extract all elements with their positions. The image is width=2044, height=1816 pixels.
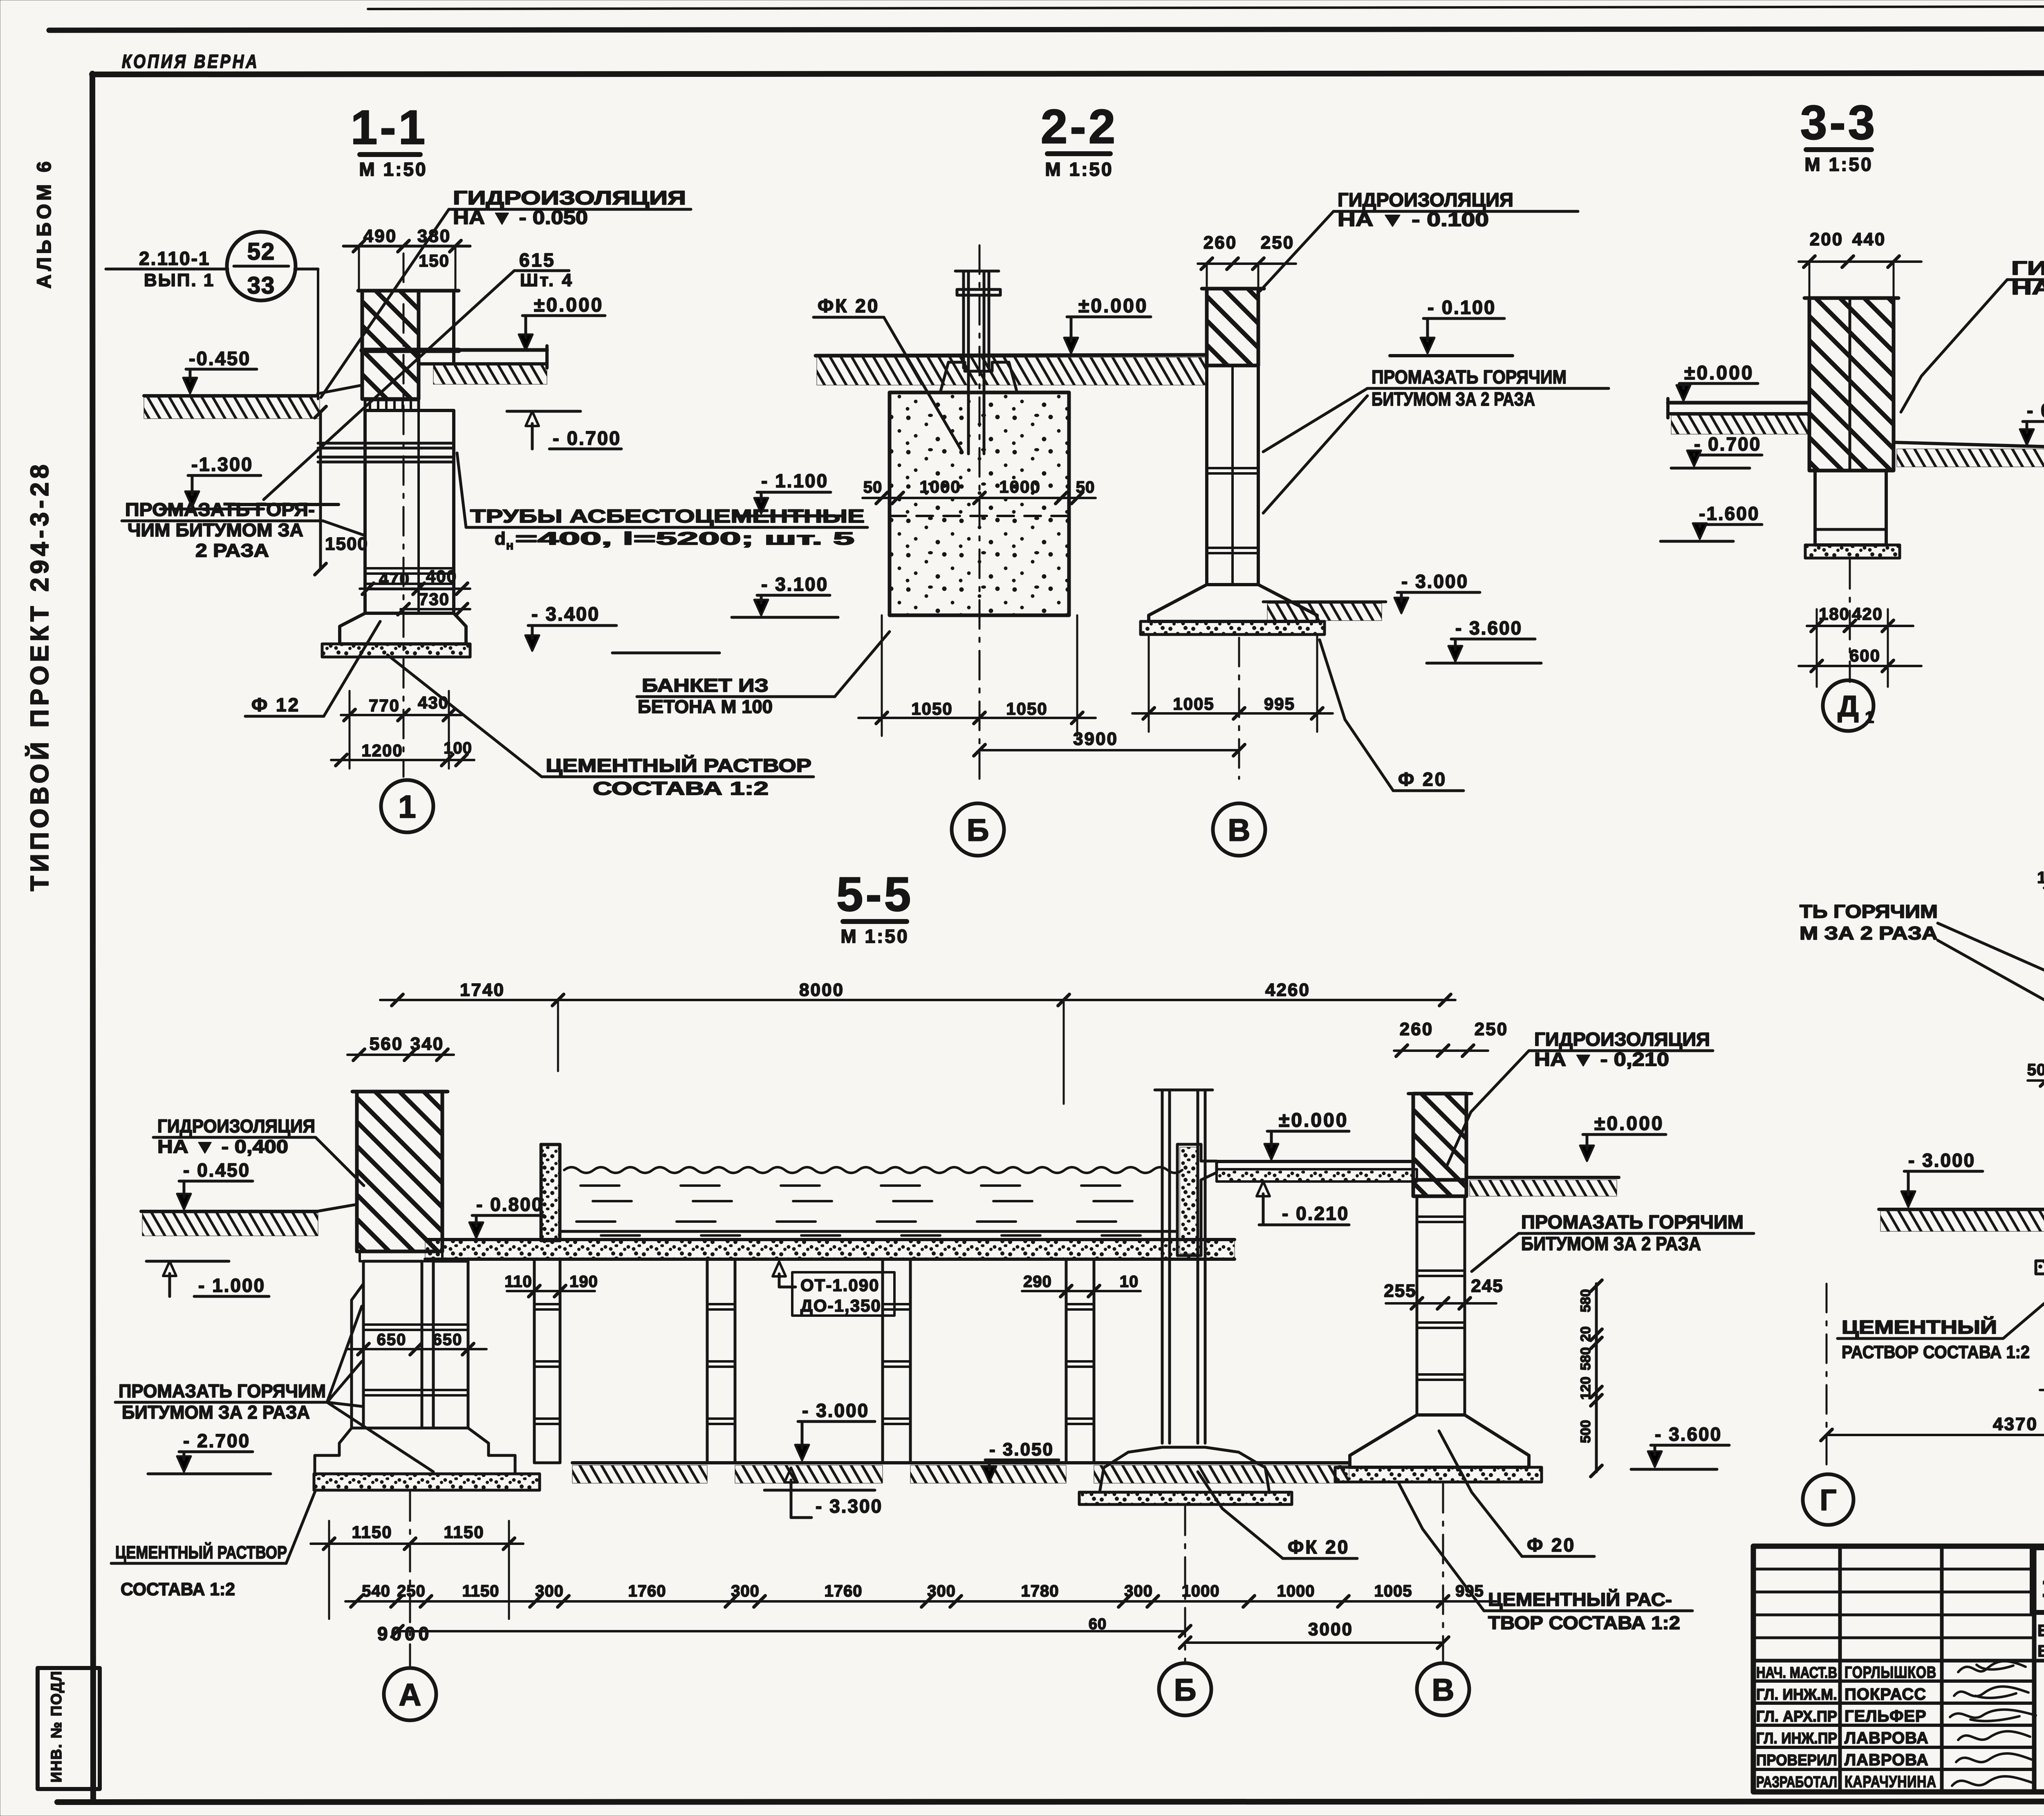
svg-text:ЦЕМЕНТНЫЙ: ЦЕМЕНТНЫЙ [1842, 1316, 1997, 1338]
5-5 water dashes [580, 1184, 1163, 1187]
svg-text:Б: Б [967, 813, 989, 847]
svg-text:3900: 3900 [1073, 729, 1118, 749]
svg-text:ПРОМАЗАТЬ ГОРЯ-: ПРОМАЗАТЬ ГОРЯ- [125, 499, 315, 520]
svg-text:ТВОР СОСТАВА 1:2: ТВОР СОСТАВА 1:2 [1488, 1612, 1680, 1633]
svg-text:- 3.050: - 3.050 [989, 1439, 1054, 1460]
svg-text:- 0.210: - 0.210 [1282, 1203, 1349, 1224]
svg-text:Шт. 4: Шт. 4 [520, 270, 574, 290]
5-5 pool floor slab [425, 1240, 1235, 1259]
3-3 footing slab [1805, 545, 1900, 558]
svg-text:ЛАВРОВА: ЛАВРОВА [1845, 1729, 1929, 1747]
svg-text:1000: 1000 [919, 477, 961, 496]
page frame: bottom border [57, 1801, 2044, 1802]
svg-text:20: 20 [1578, 1326, 1594, 1342]
2-2 footing trapezoid under wall column [1149, 585, 1317, 621]
svg-text:540: 540 [362, 1582, 390, 1600]
svg-text:ГЛ. ИНЖ.М.: ГЛ. ИНЖ.М. [1756, 1686, 1837, 1704]
2-2 dim 50/1000/1000/50 over block [863, 497, 1096, 499]
svg-text:1050: 1050 [911, 699, 953, 718]
svg-text:- 3.400: - 3.400 [531, 603, 600, 625]
svg-text:Ф 12: Ф 12 [251, 694, 300, 715]
svg-text:1500: 1500 [325, 534, 368, 554]
svg-text:245: 245 [1471, 1276, 1503, 1296]
svg-text:ДО-1,350: ДО-1,350 [800, 1296, 881, 1315]
svg-text:ТЬ ГОРЯЧИМ: ТЬ ГОРЯЧИМ [1800, 901, 1938, 922]
2-2 column base flange [957, 289, 1000, 295]
title block: signatures [1958, 1661, 2026, 1672]
5-5 left ground line [141, 1210, 317, 1213]
6-6 base slab [2036, 1261, 2044, 1274]
1-1 column top edge [358, 289, 459, 293]
svg-text:1740: 1740 [460, 980, 505, 1000]
svg-text:2-2: 2-2 [1041, 100, 1118, 154]
svg-text:770: 770 [369, 696, 400, 715]
svg-text:М ЗА 2 РАЗА: М ЗА 2 РАЗА [1800, 923, 1938, 944]
1-1 axis circle 1 [381, 780, 433, 832]
svg-text:БИТУМОМ ЗА 2 РАЗА: БИТУМОМ ЗА 2 РАЗА [1372, 388, 1535, 410]
svg-text:3000: 3000 [1308, 1619, 1353, 1639]
svg-text:490: 490 [363, 226, 397, 246]
svg-text:300: 300 [927, 1582, 956, 1600]
svg-text:АЛЬБОМ 6: АЛЬБОМ 6 [34, 158, 55, 289]
svg-text:1: 1 [398, 789, 416, 825]
1-1 left ground line at -0.450 [144, 394, 318, 397]
5-5 dim 650/650 [347, 1348, 486, 1350]
1-1 brick joints [365, 567, 454, 569]
1-1 foundation column body [365, 410, 454, 613]
svg-text:Ф 20: Ф 20 [1398, 769, 1447, 790]
svg-text:9000: 9000 [377, 1623, 432, 1644]
3-3 right ground at -0.450 [1894, 442, 2044, 447]
svg-text:М 1:50: М 1:50 [840, 926, 909, 947]
3-3 top dim 200/440 [1799, 260, 1921, 263]
svg-text:- 3.000: - 3.000 [802, 1400, 869, 1421]
svg-text:730: 730 [419, 590, 450, 609]
svg-text:260: 260 [1204, 233, 1237, 253]
svg-text:±0.000: ±0.000 [1078, 295, 1148, 317]
2-2 right wall dim 260/250 [1198, 262, 1296, 265]
svg-text:300: 300 [731, 1582, 760, 1600]
svg-text:300: 300 [1124, 1582, 1153, 1600]
svg-text:- 0.450: - 0.450 [183, 1159, 250, 1181]
svg-text:М 1:50: М 1:50 [1804, 154, 1873, 175]
svg-text:8000: 8000 [799, 980, 844, 1000]
svg-text:ГИДРОИЗОЛЯЦИЯ: ГИДРОИЗОЛЯЦИЯ [1338, 189, 1513, 211]
2-2 anchor pedestal [940, 362, 1017, 392]
svg-text:ПРОМАЗАТЬ ГОРЯЧИМ: ПРОМАЗАТЬ ГОРЯЧИМ [1521, 1211, 1744, 1233]
svg-text:400: 400 [426, 567, 457, 586]
2-2 concrete block (banket) [890, 392, 1069, 615]
5-5 steel column at axis B [1161, 1090, 1164, 1443]
2-2 axis V line and circle [1238, 638, 1240, 779]
svg-text:- 3.600: - 3.600 [1455, 617, 1522, 639]
svg-text:-0.450: -0.450 [189, 348, 251, 369]
bottom-left inventory stamp box [38, 1668, 100, 1789]
svg-text:- 2.700: - 2.700 [183, 1430, 250, 1451]
5-5 V footing slab [1335, 1467, 1542, 1482]
5-5 pool right wall with gutter [1177, 1144, 1217, 1256]
svg-text:995: 995 [1264, 694, 1295, 713]
svg-text:580: 580 [1578, 1347, 1594, 1370]
2-2 axis B line and circle [979, 245, 981, 779]
1-1 ground hatch under floor [433, 365, 547, 384]
svg-text:- 0.450: - 0.450 [2027, 400, 2044, 421]
svg-text:560: 560 [370, 1034, 403, 1054]
svg-text:ЦЕМЕНТНЫЙ РАС-: ЦЕМЕНТНЫЙ РАС- [1488, 1589, 1672, 1610]
5-5 A column footing [315, 1428, 515, 1474]
title block: staff rows [1753, 1659, 2034, 1662]
svg-text:ГОРЛЫШКОВ: ГОРЛЫШКОВ [1845, 1664, 1936, 1681]
svg-text:ПРОМАЗАТЬ ГОРЯЧИМ: ПРОМАЗАТЬ ГОРЯЧИМ [1372, 366, 1567, 388]
svg-text:=400, l=5200; шт. 5: =400, l=5200; шт. 5 [515, 529, 854, 549]
svg-text:1050: 1050 [1006, 699, 1047, 718]
1-1 leader 615 [264, 271, 514, 500]
svg-text:1760: 1760 [825, 1582, 863, 1600]
svg-text:d: d [495, 529, 507, 549]
svg-text:1: 1 [1865, 708, 1874, 726]
svg-text:1000: 1000 [999, 477, 1040, 496]
svg-text:М 1:50: М 1:50 [359, 159, 427, 180]
svg-text:4260: 4260 [1265, 980, 1310, 1000]
svg-text:ГИДРОИЗОЛЯЦИЯ: ГИДРОИЗОЛЯЦИЯ [2011, 257, 2044, 279]
1-1 floor slab right [419, 348, 547, 352]
5-5 bottom dim 3000 [1185, 1641, 1443, 1644]
svg-text:120: 120 [1578, 1377, 1594, 1400]
svg-text:ВЫП. 1: ВЫП. 1 [144, 270, 215, 290]
svg-text:ФК 20: ФК 20 [818, 295, 879, 316]
2-2 dim 1005/995 under footing [1132, 712, 1333, 715]
5-5 foundation columns under pool [534, 1259, 560, 1463]
svg-text:±0.000: ±0.000 [1279, 1110, 1348, 1131]
svg-text:РАСТВОР СОСТАВА 1:2: РАСТВОР СОСТАВА 1:2 [1842, 1342, 2030, 1362]
svg-text:-1.300: -1.300 [191, 453, 253, 475]
svg-text:НАЧ. МАСТ.В: НАЧ. МАСТ.В [1756, 1664, 1837, 1681]
5-5 bottom dim 1150/1150 [311, 1542, 523, 1545]
title block outer box [1753, 1546, 2044, 1792]
svg-text:В: В [1228, 813, 1251, 847]
svg-text:650: 650 [433, 1331, 463, 1349]
page frame: inner border top [92, 73, 2044, 74]
5-5 A footing slab [314, 1474, 540, 1490]
svg-text:1150: 1150 [444, 1522, 484, 1542]
1-1 leader from gidroizolyatsiya [321, 209, 449, 397]
svg-text:5-5: 5-5 [836, 868, 914, 921]
svg-text:ВАННАМИ: 50х21 м С МЕСТАМИ ДЛЯ: ВАННАМИ: 50х21 м С МЕСТАМИ ДЛЯ ЗРИТЕЛЕЙ … [2037, 1641, 2044, 1660]
5-5 wall dim 560/340 [347, 1054, 454, 1056]
5-5 bottom dim 9000 [397, 1630, 1185, 1632]
5-5 hydro band under wall [360, 1251, 442, 1261]
5-5 walkway slab right [1217, 1160, 1417, 1163]
svg-text:580: 580 [1578, 1289, 1594, 1312]
svg-text:ГЕЛЬФЕР: ГЕЛЬФЕР [1845, 1707, 1927, 1725]
svg-text:ПРОМАЗАТЬ ГОРЯЧИМ: ПРОМАЗАТЬ ГОРЯЧИМ [119, 1381, 326, 1401]
1-1 footing base slab [322, 644, 470, 657]
3-3 hatched wall column [1809, 298, 1894, 471]
1-1 bottom dims 770/430 [341, 714, 462, 716]
svg-text:ФК 20: ФК 20 [1288, 1536, 1349, 1558]
title block: left grid verticals [1838, 1546, 1842, 1792]
svg-text:НА ▼ - 0,400: НА ▼ - 0,400 [157, 1136, 288, 1157]
svg-text:БИТУМОМ ЗА 2 РАЗА: БИТУМОМ ЗА 2 РАЗА [122, 1402, 310, 1423]
2-2 right wall hatched column [1207, 289, 1258, 365]
svg-text:1200: 1200 [361, 741, 403, 760]
svg-text:2 РАЗА: 2 РАЗА [195, 540, 269, 561]
svg-text:1005: 1005 [1173, 694, 1214, 713]
svg-text:430: 430 [418, 693, 449, 712]
svg-text:СОСТАВА 1:2: СОСТАВА 1:2 [593, 778, 769, 799]
svg-text:ТИПОВОЙ ПРОЕКТ 294-3-28: ТИПОВОЙ ПРОЕКТ 294-3-28 [25, 461, 54, 891]
2-2 ground line [816, 355, 1207, 356]
3-3 dims 180/420 [1807, 625, 1913, 627]
svg-text:БИТУМОМ ЗА 2 РАЗА: БИТУМОМ ЗА 2 РАЗА [1521, 1233, 1701, 1254]
5-5 label OT-1.090 DO-1.350 [792, 1272, 894, 1316]
svg-text:650: 650 [377, 1331, 407, 1349]
svg-text:180: 180 [1819, 604, 1850, 623]
6-6 dims 1100/1100 [2040, 1389, 2044, 1391]
svg-text:33: 33 [247, 272, 276, 299]
svg-text:БАНКЕТ ИЗ: БАНКЕТ ИЗ [642, 675, 769, 696]
svg-text:50: 50 [863, 478, 883, 496]
svg-text:300: 300 [535, 1582, 564, 1600]
page frame: inner border left [92, 74, 93, 1802]
svg-text:4370: 4370 [1993, 1414, 2038, 1434]
svg-text:470: 470 [379, 569, 410, 588]
1-1 brick wall column (hatched) [362, 291, 419, 399]
svg-text:СОСТАВА 1:2: СОСТАВА 1:2 [121, 1579, 235, 1599]
svg-text:ЛАВРОВА: ЛАВРОВА [1845, 1751, 1929, 1769]
svg-text:1150: 1150 [352, 1522, 392, 1542]
svg-text:- 0.700: - 0.700 [553, 427, 621, 449]
5-5 top dim chain 1740/8000/4260 [380, 999, 1455, 1001]
svg-text:ГЛ. ИНЖ.ПР: ГЛ. ИНЖ.ПР [1756, 1730, 1837, 1747]
svg-text:1780: 1780 [1021, 1582, 1059, 1600]
6-6 axis G and circle [1826, 1284, 1828, 1475]
svg-text:52: 52 [247, 238, 276, 265]
svg-text:РАЗРАБОТАЛ: РАЗРАБОТАЛ [1756, 1774, 1837, 1791]
5-5 left hatched wall [357, 1092, 442, 1251]
svg-text:420: 420 [1852, 604, 1883, 623]
svg-text:Ф 20: Ф 20 [1527, 1534, 1576, 1556]
svg-text:ГИДРОИЗОЛЯЦИЯ: ГИДРОИЗОЛЯЦИЯ [1534, 1029, 1710, 1050]
1-1 top dimension 490/380/150 [343, 245, 470, 248]
svg-text:1979: 1979 [2042, 1572, 2044, 1603]
svg-text:ЦЕМЕНТНЫЙ РАСТВОР: ЦЕМЕНТНЫЙ РАСТВОР [546, 755, 811, 776]
6-6 dim 50/1050/1050/50 [2028, 1079, 2044, 1082]
1-1 column axis [403, 253, 405, 777]
5-5 V footing trapezoid [1350, 1415, 1529, 1467]
svg-text:- 0.800: - 0.800 [476, 1194, 543, 1215]
svg-text:615: 615 [519, 249, 556, 271]
svg-text:1760: 1760 [628, 1582, 666, 1600]
svg-text:В: В [1432, 1673, 1455, 1707]
svg-text:Г: Г [1820, 1484, 1837, 1517]
1-1 inner dims 470/400 and 730 [360, 587, 470, 590]
svg-text:Б: Б [1174, 1673, 1197, 1707]
svg-text:2.110-1: 2.110-1 [139, 248, 210, 269]
2-2 footing slab [1141, 621, 1325, 634]
5-5 water surface wavy line [564, 1167, 1182, 1173]
svg-text:- 0.700: - 0.700 [1694, 433, 1761, 455]
svg-text:255: 255 [1384, 1281, 1416, 1301]
svg-text:250: 250 [397, 1582, 426, 1600]
svg-text:±0.000: ±0.000 [1594, 1113, 1664, 1134]
svg-text:250: 250 [1261, 233, 1294, 253]
svg-text:340: 340 [410, 1034, 444, 1054]
svg-text:- 3.000: - 3.000 [1908, 1150, 1975, 1171]
2-2 steel column shaft [962, 271, 965, 368]
2-2 podgotovka dashed line in block [890, 515, 1069, 517]
5-5 ground right of V column [1466, 1176, 1619, 1179]
1-1 duct line left of column [230, 503, 338, 506]
svg-text:50: 50 [1076, 478, 1095, 496]
1-1 vertical dim 1500 [319, 412, 322, 569]
5-5 under-pool ground line [572, 1461, 1349, 1464]
svg-text:ПОКРАСС: ПОКРАСС [1845, 1686, 1926, 1704]
1-1 bottom dims 1200/100 [331, 759, 474, 761]
2-2 foundation column under wall [1207, 365, 1258, 585]
svg-text:1150: 1150 [462, 1582, 500, 1600]
svg-text:- 1.000: - 1.000 [198, 1275, 265, 1296]
1-1 floor level thick line across column [362, 348, 459, 353]
3-3 axis and circle D1 [1849, 560, 1851, 682]
svg-text:А: А [399, 1677, 421, 1712]
svg-text:1000: 1000 [1182, 1582, 1220, 1600]
1-1 pipe sleeves through foundation [318, 442, 454, 445]
svg-text:190: 190 [569, 1273, 598, 1291]
svg-text:ИНВ. № ПОДЛ.: ИНВ. № ПОДЛ. [48, 1666, 65, 1782]
svg-text:БАССЕЙН/В ДЕРЕВОКЛЕЕНЫХ КОНСТР: БАССЕЙН/В ДЕРЕВОКЛЕЕНЫХ КОНСТРУКЦИЯХ/С К… [2037, 1621, 2044, 1640]
5-5 V dims 260/250 [1394, 1049, 1488, 1052]
svg-text:н: н [506, 539, 513, 552]
5-5 V column hatched top [1413, 1094, 1466, 1180]
svg-text:1000: 1000 [1277, 1582, 1315, 1600]
svg-text:260: 260 [1400, 1019, 1433, 1039]
3-3 dim 600 [1799, 665, 1921, 667]
svg-text:Д: Д [1838, 690, 1858, 723]
svg-text:200: 200 [1810, 229, 1843, 249]
svg-text:100: 100 [444, 739, 472, 757]
1-1 footing trapezoid [340, 613, 466, 644]
5-5 V foundation column [1417, 1196, 1465, 1415]
5-5 B pipe dome footing [1100, 1447, 1269, 1492]
5-5 left wall foundation columns [363, 1261, 422, 1428]
svg-text:ЧИМ БИТУМОМ ЗА: ЧИМ БИТУМОМ ЗА [128, 520, 303, 540]
page frame: outer top scan line [49, 29, 2044, 30]
svg-text:КОПИЯ ВЕРНА: КОПИЯ ВЕРНА [122, 51, 259, 72]
svg-text:440: 440 [1852, 229, 1886, 249]
svg-text:ГИДРОИЗОЛЯЦИЯ: ГИДРОИЗОЛЯЦИЯ [157, 1116, 315, 1137]
svg-text:БЕТОНА М 100: БЕТОНА М 100 [638, 696, 773, 717]
svg-text:±0.000: ±0.000 [534, 294, 603, 316]
5-5 pool left wall [541, 1144, 560, 1241]
svg-text:250: 250 [1475, 1019, 1508, 1039]
5-5 axis circles A B V [409, 1492, 411, 1666]
svg-text:290: 290 [1023, 1273, 1052, 1291]
svg-text:ГИДРОИЗОЛЯЦИЯ: ГИДРОИЗОЛЯЦИЯ [453, 187, 686, 209]
svg-text:- 3.300: - 3.300 [816, 1495, 883, 1517]
svg-text:500: 500 [1578, 1420, 1594, 1443]
svg-text:150: 150 [419, 251, 450, 270]
1-1 white pier strip [419, 291, 454, 364]
5-5 bottom dim chain row [345, 1600, 1496, 1603]
svg-text:- 3.100: - 3.100 [761, 574, 828, 595]
5-5 pool inner floor line [560, 1230, 1177, 1233]
svg-text:-1.600: -1.600 [1699, 503, 1759, 524]
5-5 vertical dim chain 500/580/120/580/20 [1595, 1284, 1598, 1472]
svg-text:ПРОВЕРИЛ: ПРОВЕРИЛ [1756, 1752, 1837, 1769]
5-5 B footing slab [1079, 1492, 1292, 1504]
svg-text:ЦЕМЕНТНЫЙ РАСТВОР: ЦЕМЕНТНЫЙ РАСТВОР [115, 1542, 287, 1563]
svg-text:50: 50 [2027, 1061, 2044, 1079]
svg-text:ОТ-1.090: ОТ-1.090 [800, 1276, 879, 1295]
svg-text:120: 120 [2037, 869, 2044, 887]
svg-text:±0.000: ±0.000 [1684, 362, 1754, 384]
3-3 lower foundation column [1815, 471, 1886, 545]
svg-text:ГЛ. АРХ.ПР: ГЛ. АРХ.ПР [1756, 1708, 1837, 1725]
4-4 leader to 3-3 column [1901, 280, 2007, 412]
2-2 dim 3900 between axes [979, 749, 1239, 751]
svg-text:3-3: 3-3 [1800, 96, 1878, 150]
svg-text:- 1.100: - 1.100 [761, 470, 828, 491]
title block: thin rows [1753, 1568, 2034, 1571]
2-2 ground hatch right of footing [1263, 601, 1386, 603]
svg-text:1005: 1005 [1374, 1582, 1412, 1600]
svg-text:600: 600 [1849, 646, 1880, 665]
svg-text:- 3.600: - 3.600 [1655, 1424, 1722, 1445]
1-1 hydro layer band under wall [365, 400, 419, 410]
svg-text:- 3.000: - 3.000 [1401, 571, 1468, 592]
svg-text:10: 10 [1120, 1273, 1139, 1291]
svg-text:М 1:50: М 1:50 [1045, 159, 1113, 180]
6-6 left ground line [1879, 1208, 2044, 1211]
svg-text:110: 110 [504, 1273, 532, 1291]
6-6 dim 4370 [1827, 1434, 2044, 1436]
svg-text:КАРАЧУНИНА: КАРАЧУНИНА [1845, 1773, 1936, 1791]
2-2 dim 1050/1050 under block [858, 717, 1096, 719]
3-3 floor slab left [1668, 401, 1809, 405]
svg-text:1-1: 1-1 [351, 101, 428, 155]
scan artifact line top [368, 7, 2044, 9]
title block: 1979 box [2032, 1548, 2044, 1612]
svg-text:- 0.100: - 0.100 [1428, 296, 1496, 318]
